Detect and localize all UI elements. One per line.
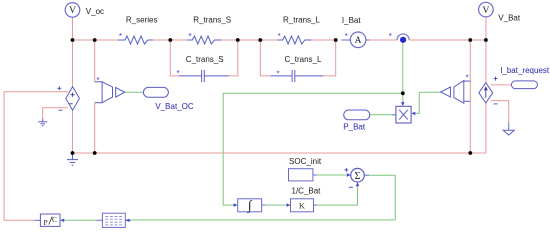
svg-text:P_Bat: P_Bat [343,122,366,131]
svg-text:*: * [345,32,348,41]
svg-text:R_trans_L: R_trans_L [283,15,320,24]
svg-text:C_trans_S: C_trans_S [186,55,224,64]
svg-text:C_trans_L: C_trans_L [285,55,322,64]
svg-text:SOC_init: SOC_init [289,157,322,166]
svg-text:*: * [278,32,281,41]
svg-text:*: * [188,32,191,41]
svg-text:I_bat_request: I_bat_request [500,66,550,75]
svg-text:P: P [44,218,48,227]
svg-text:*: * [119,32,122,41]
svg-text:V_Bat: V_Bat [498,13,521,22]
svg-text:I_Bat: I_Bat [342,16,361,25]
svg-text:A: A [355,36,362,46]
svg-text:V_Bat_OC: V_Bat_OC [155,102,193,111]
svg-text:*: * [276,70,279,79]
svg-text:*: * [176,69,179,78]
svg-text:*: * [389,32,392,41]
svg-text:R_trans_S: R_trans_S [193,15,231,24]
svg-text:R_series: R_series [126,15,158,24]
svg-text:V: V [482,6,489,16]
svg-text:1/C_Bat: 1/C_Bat [292,187,322,196]
svg-text:V_oc: V_oc [86,7,104,16]
svg-text:Σ: Σ [355,171,361,182]
svg-text:V: V [69,6,76,16]
svg-text:*: * [96,76,99,85]
svg-text:*: * [466,73,469,82]
svg-text:C: C [52,215,57,224]
svg-text:K: K [299,200,306,210]
